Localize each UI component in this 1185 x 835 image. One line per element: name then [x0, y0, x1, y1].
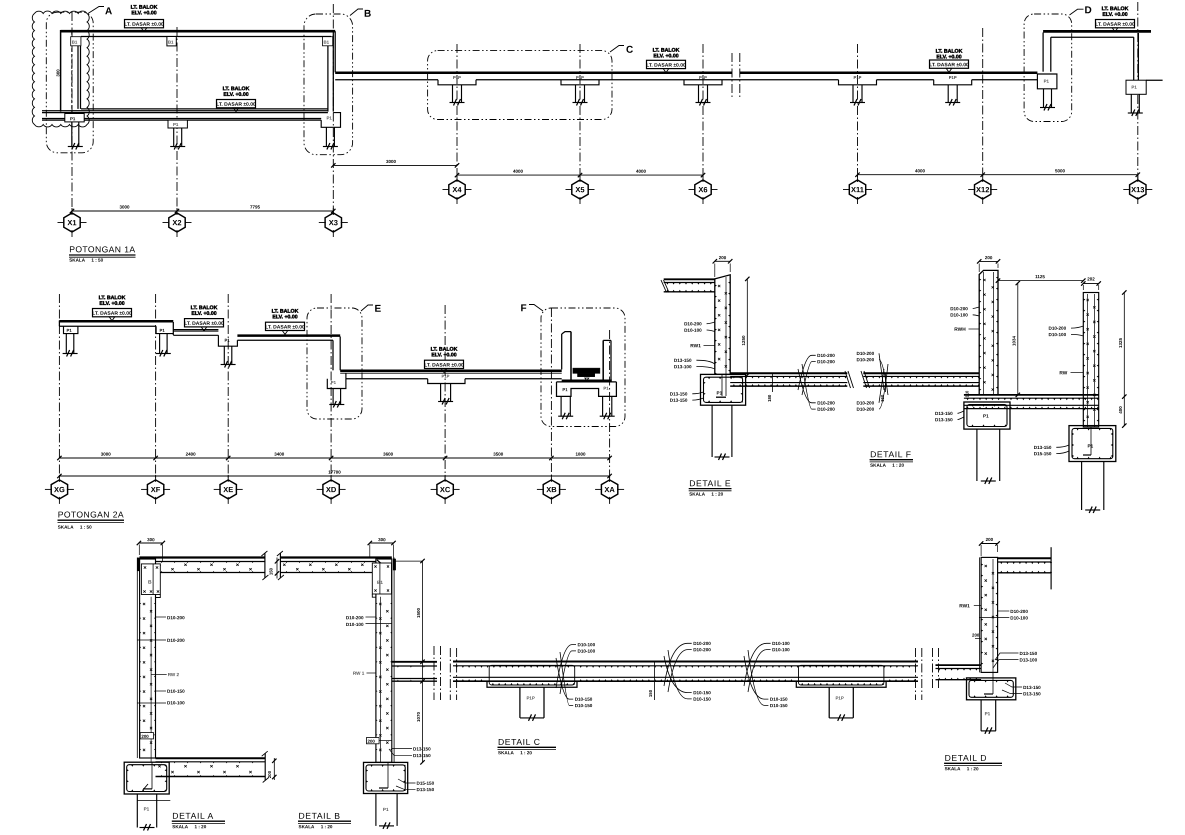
svg-text:D13-150: D13-150 — [670, 398, 688, 403]
svg-text:D10-200: D10-200 — [1048, 326, 1066, 331]
svg-text:ELV. +0.00: ELV. +0.00 — [653, 53, 678, 59]
detail D top slab — [998, 557, 1052, 559]
svg-text:180: 180 — [767, 394, 772, 402]
svg-text:200: 200 — [367, 739, 375, 744]
grid bubble X2 — [169, 213, 185, 232]
svg-text:LT. DASAR ±0.00: LT. DASAR ±0.00 — [646, 63, 686, 69]
svg-text:1250: 1250 — [741, 335, 746, 346]
step up to raised slab — [1042, 33, 1044, 72]
svg-text:P1P: P1P — [949, 75, 957, 80]
svg-text:B1: B1 — [72, 40, 78, 45]
grid bubble X6 — [695, 180, 711, 199]
section callout F — [529, 305, 543, 312]
elevation label ELV slab mid — [653, 48, 680, 60]
svg-text:D10-100: D10-100 — [950, 313, 968, 318]
slab level 2 lines — [173, 329, 218, 331]
dim line X4-X6 — [457, 174, 703, 176]
svg-text:200: 200 — [986, 537, 994, 542]
pedestal P1 at X2 — [168, 120, 187, 128]
svg-text:ELV. +0.00: ELV. +0.00 — [191, 311, 216, 317]
dim line X11-X13 — [858, 174, 1138, 176]
pedestal P1 at X13 — [1126, 80, 1146, 94]
beam section B1 middle — [167, 37, 176, 46]
grid line XD — [330, 294, 332, 480]
grid line X5 — [579, 44, 581, 180]
svg-text:ELV. +0.00: ELV. +0.00 — [272, 314, 297, 320]
slab level 3 thick top — [237, 334, 340, 337]
svg-text:P1P: P1P — [576, 75, 584, 80]
svg-text:D10-200: D10-200 — [684, 321, 702, 326]
svg-text:17700: 17700 — [328, 470, 341, 475]
grid bubble XE — [220, 480, 236, 499]
detail D top slab break — [1050, 547, 1052, 589]
detail A footing rebar hook — [151, 762, 153, 789]
svg-text:D13-150: D13-150 — [935, 411, 953, 416]
svg-text:D10-200: D10-200 — [817, 353, 835, 358]
svg-text:ELV. +0.00: ELV. +0.00 — [223, 92, 248, 98]
svg-text:150: 150 — [648, 689, 653, 697]
svg-text:D10-150: D10-150 — [770, 703, 788, 708]
detail F dim 1325 and 400 — [1123, 293, 1125, 426]
pedestal P1P at X4 — [438, 80, 476, 85]
svg-text:X4: X4 — [452, 185, 462, 194]
tank structure POTONGAN 1A - top slab thick line — [61, 30, 336, 33]
grid line XE — [227, 294, 229, 480]
elevation label ELV slab X11 — [936, 49, 963, 61]
svg-text:SKALA 1 : 50: SKALA 1 : 50 — [69, 258, 103, 263]
svg-text:4000: 4000 — [513, 169, 524, 174]
detail F dim 1125 — [998, 280, 1083, 282]
detail B top slab — [280, 556, 391, 558]
svg-text:D10-200: D10-200 — [817, 407, 835, 412]
svg-text:P1P: P1P — [854, 75, 862, 80]
svg-text:P1P: P1P — [526, 696, 534, 701]
detail B footing rebar hook — [387, 762, 389, 788]
svg-text:3000: 3000 — [119, 204, 130, 209]
svg-text:X13: X13 — [1131, 185, 1144, 194]
svg-text:D10-200: D10-200 — [346, 615, 364, 620]
detail E top slab — [664, 278, 715, 280]
svg-text:D13-100: D13-100 — [1019, 658, 1037, 663]
svg-text:ELV. +0.00: ELV. +0.00 — [1102, 12, 1127, 18]
dim line X3-X4 — [333, 164, 457, 166]
right wall lines — [327, 37, 329, 112]
pedestal P1P at XC — [428, 379, 465, 384]
detail D wall callouts — [998, 610, 1010, 612]
svg-text:P1: P1 — [159, 328, 165, 333]
svg-text:D13-100: D13-100 — [674, 364, 692, 369]
raised slab thick top line — [1043, 30, 1151, 33]
svg-text:SKALA 1 : 50: SKALA 1 : 50 — [58, 525, 92, 530]
detail B middle slab break lines — [433, 646, 435, 700]
svg-text:D13-150: D13-150 — [416, 787, 434, 792]
svg-text:4000: 4000 — [636, 169, 647, 174]
ground line right of X13 — [1146, 79, 1162, 81]
svg-text:LT. DASAR ±0.00: LT. DASAR ±0.00 — [216, 102, 256, 108]
pedestal P1 at XE — [218, 335, 237, 346]
svg-text:2400: 2400 — [186, 452, 197, 457]
svg-text:B: B — [148, 580, 152, 586]
svg-text:C: C — [626, 45, 633, 56]
svg-text:XB: XB — [546, 485, 557, 494]
detail A corner dark — [137, 558, 140, 572]
svg-text:DETAIL D: DETAIL D — [945, 753, 988, 763]
svg-text:B1: B1 — [377, 580, 383, 585]
svg-text:P1: P1 — [70, 116, 76, 121]
grid line XB — [550, 308, 552, 480]
svg-text:200: 200 — [719, 255, 727, 260]
slab level 1 bottom line — [59, 325, 156, 327]
svg-text:D10-200: D10-200 — [856, 351, 874, 356]
svg-text:D10-200: D10-200 — [856, 401, 874, 406]
svg-text:P1: P1 — [144, 807, 150, 812]
svg-text:D10-100: D10-100 — [1048, 332, 1066, 337]
svg-text:P1P: P1P — [835, 696, 843, 701]
grid bubble XD — [323, 480, 339, 499]
detail B footing callouts — [398, 779, 416, 783]
pedestal P1 at XG — [64, 326, 78, 333]
grid bubble XF — [147, 480, 163, 499]
svg-text:4000: 4000 — [915, 168, 926, 173]
detail F left pier — [976, 429, 978, 481]
svg-text:XA: XA — [604, 485, 615, 494]
detail B top slab end break — [279, 553, 281, 578]
detail C pier P1P left — [519, 687, 521, 718]
svg-text:XF: XF — [151, 485, 161, 494]
slab level 1 thick top — [59, 320, 173, 323]
pedestal P1 at X3 — [321, 113, 340, 128]
bottom slab band — [42, 110, 328, 112]
grid line X13 — [1137, 2, 1139, 180]
detail C slab right break lines — [915, 648, 917, 700]
pool right wall — [602, 340, 604, 380]
svg-text:X6: X6 — [698, 185, 707, 194]
detail A pier P1 — [136, 794, 138, 828]
raised slab inner line — [1051, 36, 1134, 38]
svg-text:P1: P1 — [224, 338, 230, 343]
detail E pier — [711, 405, 713, 457]
svg-text:ELV. +0.00: ELV. +0.00 — [131, 10, 156, 16]
svg-text:DETAIL A: DETAIL A — [172, 811, 214, 821]
detail E wall RW1 — [715, 275, 730, 375]
detail B dim 1500 1070 — [396, 560, 423, 562]
svg-text:RW1: RW1 — [959, 603, 970, 609]
grid line XA — [609, 330, 611, 480]
detail F right footing P1 — [1069, 426, 1116, 462]
beam section B1 right — [323, 37, 333, 46]
detail E footing P1 — [701, 374, 746, 405]
svg-text:P1: P1 — [1044, 79, 1050, 84]
grid line X1 — [71, 12, 73, 213]
grid bubble X11 — [849, 180, 865, 199]
svg-text:D10-100: D10-100 — [577, 649, 595, 654]
grid line XF — [155, 294, 157, 480]
ground slab thick top line left segment — [335, 72, 732, 75]
detail D wall RW1 — [978, 557, 980, 672]
section boundary C — [428, 51, 612, 120]
detail A dim 300 top — [139, 542, 163, 544]
svg-text:D10-150: D10-150 — [575, 697, 593, 702]
svg-text:RW1: RW1 — [690, 343, 701, 349]
svg-text:P1P: P1P — [442, 374, 450, 379]
detail E dim 180 — [772, 373, 774, 392]
elevation label ELV level4 — [431, 347, 458, 359]
detail F tank left wall RWH — [979, 270, 998, 395]
elevation label ELV level3 — [272, 309, 299, 321]
svg-text:LT. DASAR ±0.00: LT. DASAR ±0.00 — [424, 362, 464, 368]
svg-text:D10-100: D10-100 — [1010, 616, 1028, 621]
slab level 1 step down — [172, 322, 174, 335]
svg-text:DETAIL C: DETAIL C — [498, 737, 541, 747]
grid bubble X13 — [1130, 180, 1146, 199]
detail D footing callouts — [1005, 683, 1022, 687]
section callout B — [350, 9, 363, 16]
svg-text:202: 202 — [1087, 276, 1095, 281]
detail D bottom slab — [936, 664, 982, 666]
svg-text:3400: 3400 — [274, 452, 285, 457]
section boundary D — [1024, 14, 1072, 122]
grid bubble XG — [51, 480, 67, 499]
svg-text:200: 200 — [972, 633, 980, 638]
detail C slab left break lines — [449, 648, 451, 700]
left wall lines — [60, 30, 62, 112]
svg-text:D10-200: D10-200 — [856, 357, 874, 362]
grid bubble X4 — [449, 180, 465, 199]
dim line row2 spans — [59, 457, 609, 459]
detail E right slab — [730, 372, 847, 374]
elevation label ELV roof right — [1102, 6, 1129, 18]
svg-text:X2: X2 — [172, 218, 181, 227]
svg-text:D13-150: D13-150 — [935, 417, 953, 422]
pool right pier — [602, 396, 604, 416]
section boundary F — [541, 308, 625, 427]
svg-text:SKALA 1 : 20: SKALA 1 : 20 — [870, 463, 904, 468]
svg-text:D13-150: D13-150 — [1019, 651, 1037, 656]
svg-text:150: 150 — [268, 567, 273, 575]
svg-text:LT. DASAR ±0.00: LT. DASAR ±0.00 — [265, 324, 305, 330]
svg-text:P1P: P1P — [699, 75, 707, 80]
svg-text:300: 300 — [56, 69, 61, 77]
beam section B1 left — [71, 37, 81, 46]
grid bubble XA — [601, 480, 617, 499]
svg-text:D10-100: D10-100 — [346, 622, 364, 627]
detail F left footing P1 — [964, 402, 1010, 429]
detail F dim 202 right wall — [1083, 283, 1098, 285]
detail D footing P1 — [967, 678, 1016, 700]
svg-text:D: D — [1084, 5, 1091, 16]
detail B wall callouts — [366, 616, 376, 618]
detail A top slab end break — [264, 553, 266, 578]
svg-text:1070: 1070 — [416, 711, 421, 722]
detail A footing P1 — [124, 762, 169, 794]
svg-text:5000: 5000 — [1055, 168, 1066, 173]
svg-text:300: 300 — [147, 537, 155, 542]
svg-text:D10-200: D10-200 — [167, 638, 185, 643]
detail F left slab — [863, 372, 979, 374]
dim line X1-X3 — [72, 210, 333, 212]
svg-text:DETAIL B: DETAIL B — [298, 811, 340, 821]
svg-text:D10-100: D10-100 — [167, 700, 185, 705]
revision cloud — [32, 11, 89, 127]
svg-text:D13-150: D13-150 — [674, 358, 692, 363]
grid line X4 — [456, 44, 458, 180]
detail E right slab end break — [845, 371, 851, 388]
svg-text:P1: P1 — [326, 116, 332, 121]
elevation label ELV roof left — [131, 5, 158, 17]
grid line XG — [58, 294, 60, 480]
detail A lean concrete line — [137, 799, 170, 801]
svg-text:D10-200: D10-200 — [693, 647, 711, 652]
svg-text:1500: 1500 — [416, 607, 421, 618]
svg-text:D10-150: D10-150 — [693, 697, 711, 702]
svg-text:XG: XG — [54, 485, 65, 494]
svg-text:P1: P1 — [66, 328, 72, 333]
detail B dim 200 wall — [367, 738, 380, 744]
svg-text:D10-100: D10-100 — [772, 647, 790, 652]
svg-text:3600: 3600 — [383, 452, 394, 457]
detail A dim 200 wall — [140, 733, 153, 739]
slab level 3 bottom — [237, 339, 333, 341]
svg-text:D10-100: D10-100 — [577, 642, 595, 647]
detail C pier P1P right — [828, 687, 830, 718]
detail B wall RW1 — [376, 559, 392, 762]
svg-text:D13-150: D13-150 — [1034, 445, 1052, 450]
svg-text:160: 160 — [880, 394, 885, 402]
svg-text:D10-100: D10-100 — [772, 641, 790, 646]
detail F dim 160 — [885, 373, 887, 392]
section boundary E — [307, 308, 362, 419]
svg-text:RW 2: RW 2 — [168, 672, 180, 677]
svg-text:DETAIL F: DETAIL F — [870, 449, 912, 459]
detail A top slab — [140, 556, 265, 558]
slab level 4 thick top — [340, 370, 562, 373]
svg-text:SKALA 1 : 20: SKALA 1 : 20 — [298, 824, 332, 829]
svg-text:D10-200: D10-200 — [167, 615, 185, 620]
detail B beam box B1 — [372, 563, 391, 594]
svg-text:LT. DASAR ±0.00: LT. DASAR ±0.00 — [929, 62, 969, 68]
detail A wall RW2 — [136, 558, 138, 759]
slab level 4 second line — [340, 372, 562, 374]
svg-text:D13-150: D13-150 — [1023, 691, 1041, 696]
grid bubble XC — [437, 480, 453, 499]
detail D footing rebar hook — [992, 672, 994, 694]
detail D pier P1 — [980, 700, 982, 731]
slab level 4 bottom — [346, 378, 428, 380]
svg-text:SKALA 1 : 20: SKALA 1 : 20 — [945, 766, 979, 771]
svg-text:RW: RW — [1059, 370, 1067, 376]
detail F tank right wall RW — [1083, 293, 1098, 428]
svg-text:1125: 1125 — [1035, 274, 1045, 279]
step down at XD — [332, 340, 334, 370]
detail F left slab end break — [861, 371, 867, 388]
svg-text:200: 200 — [985, 255, 993, 260]
section callout A — [88, 7, 104, 14]
detail D bottom slab break lines — [932, 648, 934, 690]
detail F right wall rebar hook — [1090, 427, 1092, 455]
svg-text:SKALA 1 : 20: SKALA 1 : 20 — [498, 750, 532, 755]
svg-text:P1: P1 — [173, 122, 179, 127]
grid bubble X5 — [572, 180, 588, 199]
svg-text:D10-200: D10-200 — [856, 407, 874, 412]
pedestal P1 at X1 — [65, 114, 84, 122]
svg-text:D10-200: D10-200 — [1010, 609, 1028, 614]
svg-text:D10-200: D10-200 — [950, 306, 968, 311]
detail F right pier — [1081, 462, 1083, 511]
svg-text:RW 1: RW 1 — [353, 671, 365, 676]
grid line X12 — [982, 28, 984, 180]
svg-text:D13-150: D13-150 — [1023, 685, 1041, 690]
grid line X11 — [857, 44, 859, 180]
svg-text:110: 110 — [965, 390, 970, 397]
ground slab thick top line right segment — [740, 72, 1038, 75]
pedestal P1 at XD — [327, 373, 346, 389]
pedestal P1P at X6 — [684, 80, 722, 85]
detail F tank floor — [964, 394, 1099, 396]
svg-text:D10-150: D10-150 — [575, 703, 593, 708]
detail B pier P1 — [375, 794, 377, 826]
detail D callouts D13 wall base — [995, 653, 1019, 660]
pedestal P1P at X12 side — [934, 80, 972, 85]
pool left wall — [562, 332, 571, 334]
svg-text:3000: 3000 — [386, 159, 397, 164]
dim line row2 overall — [59, 475, 609, 477]
svg-text:D13-150: D13-150 — [413, 747, 431, 752]
detail C drop panel left — [487, 681, 577, 687]
elevation label ELV level2 — [191, 305, 218, 317]
svg-text:F: F — [520, 303, 526, 314]
svg-text:1325: 1325 — [1118, 337, 1123, 348]
svg-text:ELV. +0.00: ELV. +0.00 — [99, 301, 124, 307]
grid bubble X12 — [975, 180, 991, 199]
svg-text:200: 200 — [267, 770, 272, 778]
svg-text:RWH: RWH — [954, 327, 966, 333]
grid line X2 — [176, 27, 178, 213]
svg-text:P1: P1 — [985, 711, 991, 716]
pool left pier — [560, 396, 562, 416]
grid bubble X3 — [325, 213, 341, 232]
svg-text:D13-150: D13-150 — [670, 392, 688, 397]
svg-text:X12: X12 — [976, 185, 989, 194]
svg-text:D10-200: D10-200 — [693, 641, 711, 646]
svg-text:B1: B1 — [168, 40, 174, 45]
detail B callouts D13 wall base — [392, 748, 412, 750]
raised slab right wall — [1133, 37, 1135, 80]
svg-text:P1: P1 — [331, 380, 337, 385]
svg-text:POTONGAN 1A: POTONGAN 1A — [69, 244, 135, 254]
svg-text:X5: X5 — [575, 185, 584, 194]
slab break symbol — [731, 53, 733, 98]
grid line X6 — [702, 44, 704, 180]
pool floor — [562, 380, 612, 382]
detail A dim 200 bottom slab — [273, 758, 275, 780]
svg-text:B1: B1 — [323, 40, 329, 45]
svg-text:LT. DASAR ±0.00: LT. DASAR ±0.00 — [1095, 22, 1135, 28]
svg-text:B: B — [364, 9, 371, 20]
svg-text:P1: P1 — [1131, 85, 1137, 90]
tank inner top line — [81, 36, 331, 38]
svg-text:D15-150: D15-150 — [1034, 451, 1052, 456]
svg-text:1034: 1034 — [1011, 335, 1016, 346]
elevation label ELV tank floor — [223, 86, 250, 98]
svg-text:200: 200 — [141, 734, 149, 739]
detail F dim 1034 — [1017, 283, 1019, 395]
svg-text:X1: X1 — [67, 218, 76, 227]
svg-text:3500: 3500 — [493, 452, 504, 457]
svg-text:ELV. +0.00: ELV. +0.00 — [431, 352, 456, 358]
svg-text:LT. DASAR ±0.00: LT. DASAR ±0.00 — [124, 22, 164, 28]
svg-text:SKALA 1 : 20: SKALA 1 : 20 — [172, 824, 206, 829]
section callout D — [1070, 9, 1084, 15]
